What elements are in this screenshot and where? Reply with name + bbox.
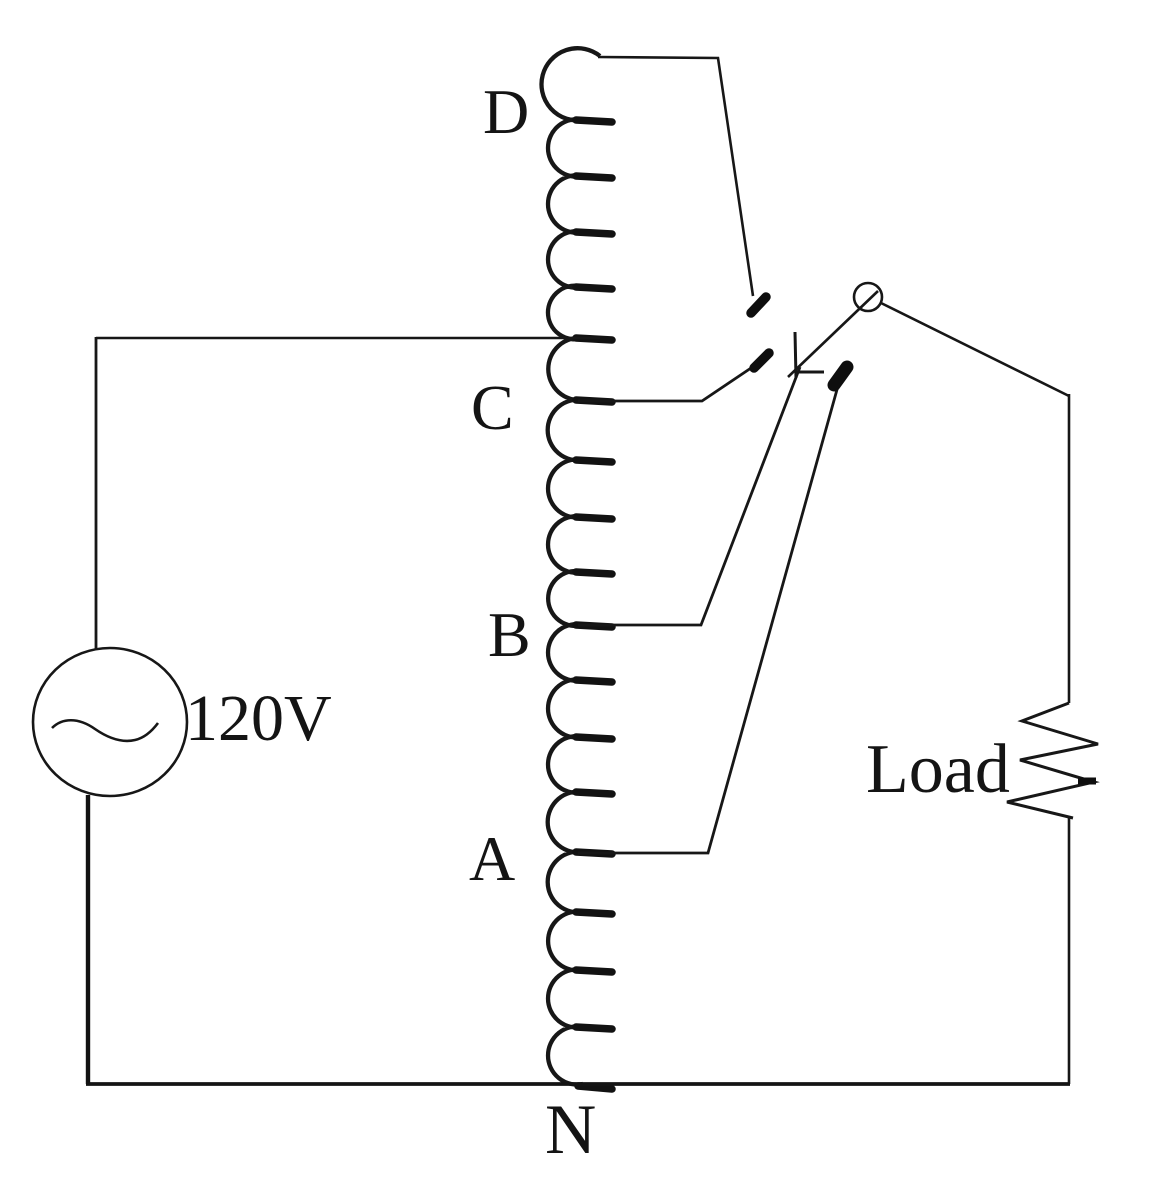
wire: tap C to switch contact	[578, 364, 757, 401]
wire: load bottom vertical	[1068, 818, 1071, 1084]
svg-text:120V: 120V	[185, 682, 332, 755]
svg-text:D: D	[483, 76, 529, 147]
wire: top terminal D to switch contact	[598, 57, 753, 296]
wiper tip vertical tick	[795, 332, 796, 378]
winding turn junction knots	[576, 120, 612, 1089]
autotransformer winding T1 (coil)	[541, 48, 600, 1084]
svg-text:B: B	[488, 599, 531, 670]
wiper tip horizontal tick	[796, 371, 824, 374]
wire: load top vertical	[1068, 394, 1071, 703]
switch contact D (fixed contact)	[751, 297, 766, 313]
switch contact C (fixed contact)	[754, 353, 769, 368]
wire: tap A to switch contact	[578, 386, 838, 853]
switch contact A (fixed contact)	[834, 367, 847, 385]
wire: left vertical above source	[95, 337, 98, 650]
wire: left vertical below source	[86, 795, 90, 1084]
svg-text:N: N	[545, 1091, 596, 1169]
wire: bottom return (N bus)	[86, 1082, 1070, 1086]
AC source sine symbol	[52, 720, 158, 741]
svg-text:A: A	[469, 823, 515, 894]
resistor bold mark	[1078, 778, 1096, 785]
switch wiper arm SW1	[788, 291, 878, 377]
wire: tap B to switch wiper tip	[578, 367, 800, 625]
svg-text:C: C	[471, 372, 514, 443]
svg-text:Load: Load	[866, 731, 1010, 808]
AC source V1 (circle)	[33, 648, 187, 796]
switch pivot terminal (circle)	[854, 283, 882, 311]
wire: source hot to winding tap	[96, 337, 600, 340]
resistor R-load (zigzag)	[1007, 703, 1098, 818]
wire: switch pivot to load	[881, 303, 1069, 396]
